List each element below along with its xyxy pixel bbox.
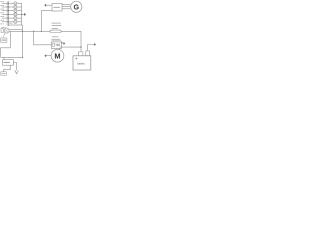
pin label 4 [0,11,2,14]
lamp L5 [8,17,22,20]
text label above switch [1,26,5,29]
pin label 1 [0,0,2,3]
lamp L2 [8,5,22,8]
lamp L6 [8,20,22,23]
wire lamp bus upper [21,3,24,57]
wire main to solenoid [34,31,52,45]
pin label 6 [0,19,2,22]
junction bus corner [22,57,23,58]
block box text [2,72,6,75]
arrow from solenoid (right) [63,42,66,45]
text label right of bar bottom [9,22,13,25]
pin stub y21.8 [2,21,8,23]
pin stub y7.0 [2,6,8,8]
starter solenoid K1 [51,42,61,49]
wire alt box to block box [4,65,11,72]
switch label text [2,40,7,41]
wire switch drop [1,31,11,57]
switch label box [1,38,7,42]
junction solenoid drop [33,31,34,32]
lamp L4 [8,13,22,16]
arrow to motor (left) [44,54,51,57]
battery terminal plus clamp [78,52,83,56]
battery terminal minus clamp [86,51,90,56]
wire solenoid to battery [60,46,81,48]
junction battery plus [80,46,81,47]
starter motor M1 [51,48,64,62]
label above fusible link (3 rows) [52,22,61,25]
pin label 5 [0,15,2,18]
pin stub y3.3 [2,2,8,4]
wire bar pin to bus y25 [8,24,22,26]
alternator label box [3,60,14,65]
svg-text:G: G [74,2,80,11]
lamp L3 [8,9,22,12]
solenoid plus terminal [61,42,63,44]
regulator text [53,6,60,9]
alternator label text [4,62,10,63]
battery B1 [73,56,91,70]
main wire y31 [9,30,50,32]
lamp L1 [8,2,22,5]
pin label 7 [0,23,2,26]
junction regulator drop [41,31,42,32]
wire alt box to ground [13,63,16,71]
wire regulator to main [41,11,52,32]
connector bar J1 [7,1,9,26]
svg-text:M: M [54,51,60,60]
generator G1 [71,1,82,12]
arrow from regulator (left) [44,4,52,7]
wire battery minus up and arrow (right) [88,43,96,51]
ignition switch S1 [1,28,23,38]
fusible link F1 [50,30,61,32]
wire regulator to generator (3 lines) [62,4,71,6]
pin stub y18.1 [2,17,8,19]
junction bus/main [22,31,23,32]
wire link to battery corner [61,31,81,51]
pin stub y10.7 [2,10,8,12]
pin label 2 [0,4,2,7]
label above solenoid (2 rows) [52,35,58,38]
svg-text:battery: battery [77,61,85,65]
engine block box [1,72,7,75]
junction lamp4/bus [21,14,22,15]
ground arrow (hollow, down) [15,70,19,74]
wire bus bottom to alt box [1,56,23,58]
pin stub y14.4 [2,13,8,15]
arrow to warning lamp (right) [22,13,26,16]
pin label 3 [0,8,2,11]
regulator box U1 [52,4,62,11]
